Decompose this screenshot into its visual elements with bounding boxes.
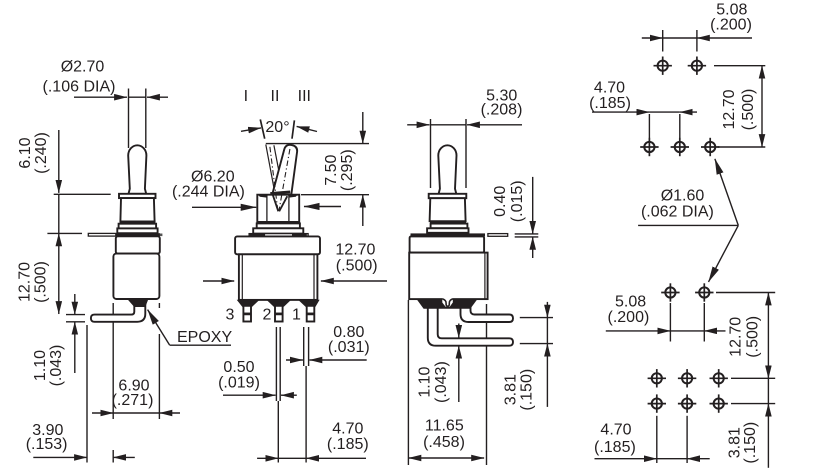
svg-text:(.208): (.208) <box>481 102 523 119</box>
svg-text:II: II <box>271 88 280 105</box>
svg-text:1: 1 <box>292 306 301 323</box>
svg-text:Ø1.60: Ø1.60 <box>661 188 705 205</box>
svg-text:(.500): (.500) <box>745 316 762 358</box>
svg-text:(.271): (.271) <box>112 392 154 409</box>
svg-text:6.10: 6.10 <box>17 137 34 168</box>
svg-text:1.10: 1.10 <box>417 366 434 397</box>
svg-text:3: 3 <box>226 306 235 323</box>
svg-text:(.200): (.200) <box>608 309 650 326</box>
svg-text:(.043): (.043) <box>433 361 450 403</box>
svg-text:(.150): (.150) <box>518 369 535 411</box>
svg-text:I: I <box>244 88 248 105</box>
svg-text:11.65: 11.65 <box>425 418 464 435</box>
svg-text:(.106 DIA): (.106 DIA) <box>43 79 116 96</box>
svg-text:12.70: 12.70 <box>721 89 738 129</box>
svg-text:20°: 20° <box>265 119 289 136</box>
svg-text:(.458): (.458) <box>423 434 465 451</box>
svg-text:III: III <box>298 88 311 105</box>
svg-text:(.185): (.185) <box>594 439 636 456</box>
svg-text:4.70: 4.70 <box>332 421 363 438</box>
svg-text:4.70: 4.70 <box>600 422 631 439</box>
svg-text:12.70: 12.70 <box>335 242 375 259</box>
svg-text:(.500): (.500) <box>33 261 50 303</box>
svg-text:2: 2 <box>263 306 272 323</box>
svg-text:(.019): (.019) <box>218 375 260 392</box>
svg-text:1.10: 1.10 <box>32 350 49 381</box>
svg-text:(.244 DIA): (.244 DIA) <box>172 184 245 201</box>
svg-text:(.240): (.240) <box>33 132 50 174</box>
svg-text:(.043): (.043) <box>48 345 65 387</box>
svg-text:7.50: 7.50 <box>323 155 340 186</box>
svg-text:(.153): (.153) <box>26 436 68 453</box>
svg-text:(.500): (.500) <box>336 258 378 275</box>
svg-text:(.150): (.150) <box>742 422 759 464</box>
svg-text:(.500): (.500) <box>740 89 757 131</box>
svg-text:(.031): (.031) <box>328 339 370 356</box>
svg-text:0.40: 0.40 <box>492 186 509 217</box>
svg-text:Ø2.70: Ø2.70 <box>61 59 105 76</box>
svg-text:EPOXY: EPOXY <box>177 329 232 346</box>
svg-text:(.185): (.185) <box>589 95 631 112</box>
svg-text:0.50: 0.50 <box>223 359 254 376</box>
svg-text:(.015): (.015) <box>509 180 526 222</box>
svg-text:3.81: 3.81 <box>503 374 520 405</box>
svg-text:(.062 DIA): (.062 DIA) <box>641 204 714 221</box>
svg-text:12.70: 12.70 <box>17 262 34 302</box>
svg-text:5.08: 5.08 <box>615 294 646 311</box>
svg-text:(.200): (.200) <box>710 17 752 34</box>
svg-text:12.70: 12.70 <box>728 317 745 357</box>
svg-text:(.295): (.295) <box>339 149 356 191</box>
svg-text:(.185): (.185) <box>327 436 369 453</box>
svg-text:4.70: 4.70 <box>594 80 625 97</box>
